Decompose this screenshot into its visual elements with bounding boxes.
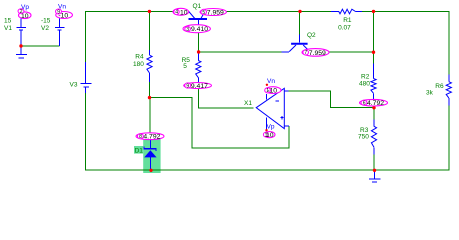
svg-text:R6: R6 <box>435 83 444 90</box>
svg-text:V1: V1 <box>4 25 12 32</box>
svg-text:4: 4 <box>175 10 178 16</box>
svg-text:4.792: 4.792 <box>143 134 160 141</box>
svg-text:R2: R2 <box>361 74 370 81</box>
svg-text:Q1: Q1 <box>193 3 202 10</box>
svg-text:8: 8 <box>139 134 142 140</box>
svg-text:480: 480 <box>359 81 370 88</box>
svg-text:V3: V3 <box>70 81 78 88</box>
svg-text:Vp: Vp <box>267 123 275 130</box>
svg-text:7.959: 7.959 <box>207 10 224 17</box>
svg-text:D1: D1 <box>135 148 144 155</box>
svg-text:6: 6 <box>363 101 366 107</box>
svg-text:Vn: Vn <box>58 3 66 10</box>
svg-text:V2: V2 <box>41 25 49 32</box>
svg-text:5: 5 <box>202 10 205 16</box>
svg-text:Vn: Vn <box>267 78 275 85</box>
svg-text:9.417: 9.417 <box>191 83 208 90</box>
svg-text:4.792: 4.792 <box>367 100 384 107</box>
svg-text:10: 10 <box>21 13 29 20</box>
svg-text:0.07: 0.07 <box>338 25 351 32</box>
svg-text:R1: R1 <box>343 17 352 24</box>
svg-text:7.959: 7.959 <box>309 50 326 57</box>
svg-text:X1: X1 <box>244 100 252 107</box>
svg-text:Vp: Vp <box>21 4 29 11</box>
svg-text:Q2: Q2 <box>307 32 316 39</box>
svg-text:15: 15 <box>4 17 12 24</box>
svg-text:3k: 3k <box>426 89 434 96</box>
svg-text:9.410: 9.410 <box>191 26 208 33</box>
svg-text:180: 180 <box>133 61 144 68</box>
svg-text:-10: -10 <box>267 88 277 95</box>
svg-text:5: 5 <box>183 63 187 70</box>
svg-text:R4: R4 <box>135 54 144 61</box>
svg-text:7: 7 <box>304 50 307 56</box>
svg-text:3: 3 <box>186 27 189 33</box>
svg-text:10: 10 <box>266 132 274 139</box>
svg-text:750: 750 <box>358 133 369 140</box>
svg-text:-15: -15 <box>41 17 51 24</box>
svg-text:-10: -10 <box>58 13 68 20</box>
svg-text:10: 10 <box>180 9 188 16</box>
svg-text:9: 9 <box>186 83 189 89</box>
